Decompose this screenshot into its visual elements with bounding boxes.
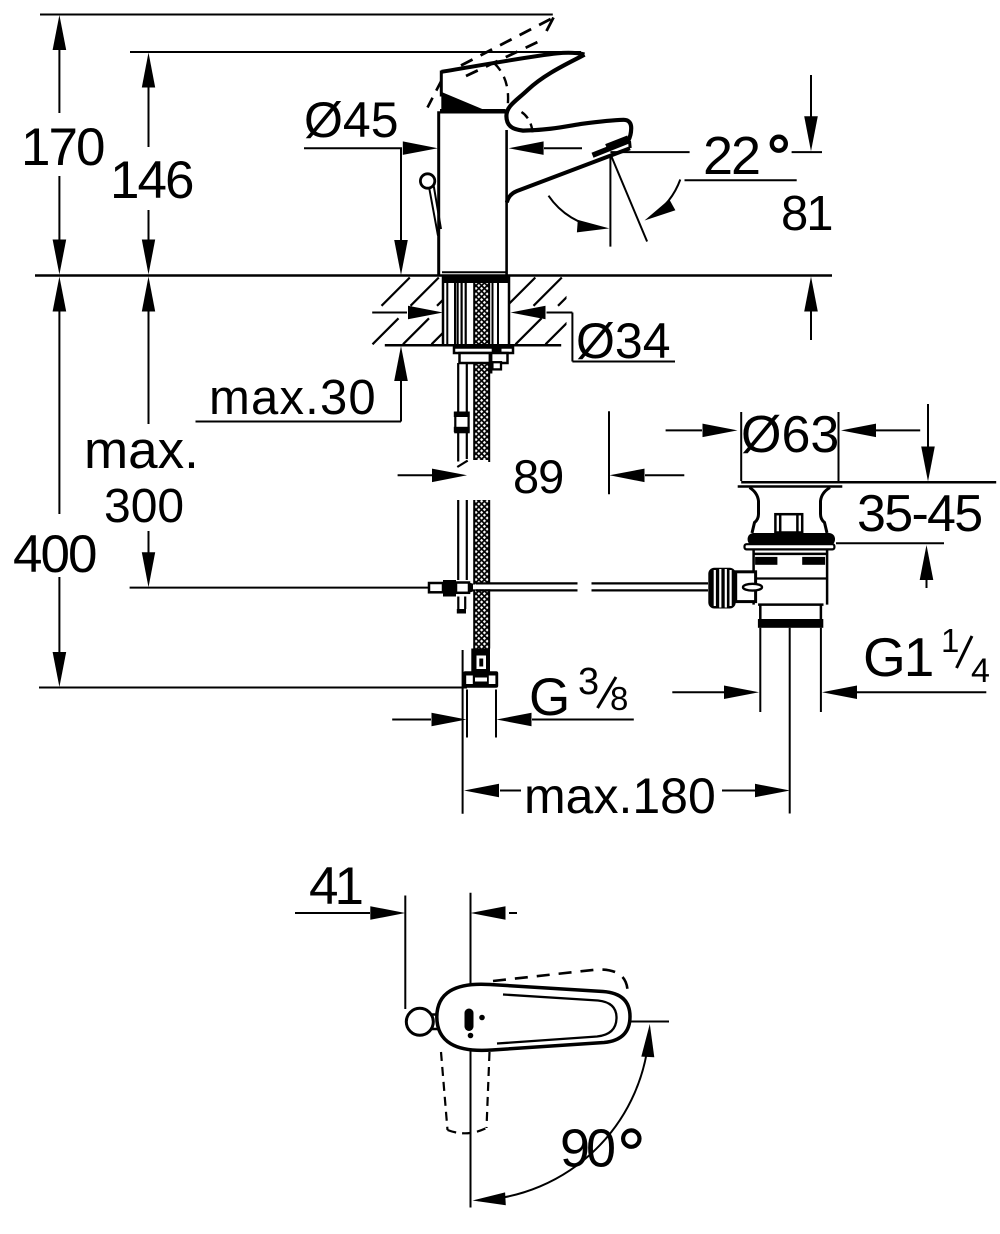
svg-text:Ø34: Ø34 <box>576 313 671 369</box>
svg-text:8: 8 <box>610 680 628 717</box>
svg-text:300: 300 <box>104 480 184 533</box>
svg-text:Ø63: Ø63 <box>741 406 839 464</box>
svg-text:81: 81 <box>781 187 832 241</box>
svg-text:146: 146 <box>110 151 193 210</box>
svg-text:Ø45: Ø45 <box>304 92 399 148</box>
svg-text:G1: G1 <box>863 626 932 688</box>
svg-text:max.: max. <box>84 421 199 480</box>
svg-text:max.30: max.30 <box>209 371 377 425</box>
svg-text:3: 3 <box>578 661 599 703</box>
svg-text:41: 41 <box>309 857 361 916</box>
svg-text:max.180: max.180 <box>524 768 716 824</box>
svg-text:1: 1 <box>941 622 959 659</box>
svg-text:G: G <box>529 668 570 727</box>
svg-text:22: 22 <box>703 126 759 186</box>
svg-text:400: 400 <box>13 525 96 584</box>
svg-text:90: 90 <box>560 1119 614 1179</box>
svg-text:89: 89 <box>513 450 563 503</box>
svg-text:4: 4 <box>971 652 990 690</box>
svg-text:35-45: 35-45 <box>857 485 982 543</box>
svg-text:170: 170 <box>21 118 104 177</box>
